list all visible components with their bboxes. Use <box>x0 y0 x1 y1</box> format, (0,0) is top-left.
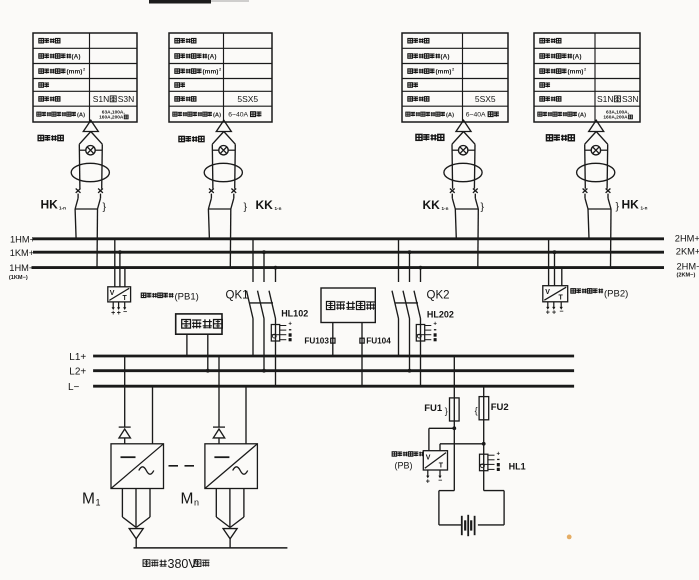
U2-KK knife switch <box>210 194 212 199</box>
bus L1+ <box>93 355 574 358</box>
PB output stubs with polarity <box>427 470 429 477</box>
bus 1KM+/2KM+ <box>33 251 664 254</box>
U4-HK knife switch <box>584 194 586 199</box>
svg-text:+: + <box>426 478 430 485</box>
node: QK2 wire2 on bus2 <box>408 250 412 254</box>
svg-text:L2+: L2+ <box>69 367 86 378</box>
svg-text:1KM+: 1KM+ <box>10 248 35 258</box>
svg-text:(A): (A) <box>208 54 217 61</box>
fuse FU104 <box>360 338 364 343</box>
node: PB1 wire2 on bus 1KM+ <box>118 250 122 254</box>
svg-text:(A): (A) <box>77 113 85 119</box>
U3-KK fuse link X mark <box>450 189 455 193</box>
M1 arrow to AC source <box>129 529 143 539</box>
svg-text:V: V <box>426 455 431 462</box>
bus L2+ <box>93 369 574 372</box>
U1-HK wire right <box>101 144 104 189</box>
svg-text:2KM+: 2KM+ <box>676 246 699 256</box>
U1-HK indicator lamp <box>86 146 95 155</box>
U1-HK fuse link X mark <box>98 189 103 193</box>
U2-KK wire right <box>234 144 237 189</box>
QK2 cross bar <box>396 302 419 304</box>
svg-text:(PB2): (PB2) <box>604 289 628 300</box>
U2-KK wire to bus1 <box>208 209 209 239</box>
svg-text:(2KM−): (2KM−) <box>677 273 696 279</box>
isolator QK2 drop wires <box>398 239 400 282</box>
svg-text:(PB1): (PB1) <box>175 291 199 302</box>
bus 1HM+/2HM+ <box>33 237 664 240</box>
U2-KK current transformer ellipse <box>204 163 242 181</box>
voltmeter PB V/T box <box>423 451 447 470</box>
U2-KK fuse link X mark <box>231 189 236 193</box>
U1-HK wire to bus1 <box>75 209 76 239</box>
QK1 cross bar <box>250 302 273 304</box>
voltmeter PB2 drop wires from buses <box>548 239 550 286</box>
svg-text:1-n: 1-n <box>59 206 66 211</box>
Mn output funnel <box>215 489 217 518</box>
svg-text:FU2: FU2 <box>491 402 509 413</box>
svg-text:}: } <box>481 201 485 213</box>
insulation monitor box <box>321 288 375 323</box>
svg-text:+: + <box>111 310 115 317</box>
fuse FU2 wire from L- <box>483 386 485 490</box>
svg-text:2: 2 <box>219 67 222 72</box>
U3-KK tent wires <box>452 132 464 145</box>
U1-HK wire left <box>78 144 81 189</box>
U1-HK tent wires <box>79 132 91 145</box>
fuse FU104 wire <box>361 323 363 387</box>
M1 output funnel <box>121 489 123 518</box>
svg-text:160A,200A: 160A,200A <box>603 115 628 121</box>
U1-HK fuse link X mark <box>76 189 81 193</box>
svg-text:2HM+: 2HM+ <box>675 233 699 243</box>
decorative: none <box>567 535 572 540</box>
svg-text:+: + <box>433 322 437 328</box>
svg-text:HK: HK <box>41 198 59 212</box>
svg-text:1-n: 1-n <box>641 206 648 211</box>
QK2 wire to L2+ <box>409 319 411 371</box>
diode of Mn <box>213 426 225 428</box>
U3-KK wire right <box>473 144 476 189</box>
U2-KK indicator lamp <box>219 146 228 155</box>
dropper wire to L2+ <box>207 334 209 371</box>
circuit label closing circuit (U4) <box>546 135 552 141</box>
svg-text:FU103: FU103 <box>304 337 329 346</box>
svg-text:T: T <box>559 295 564 302</box>
svg-text:(A): (A) <box>446 113 454 119</box>
svg-text:(A): (A) <box>213 113 221 119</box>
svg-text:2HM−: 2HM− <box>677 262 699 272</box>
rectifier M1 wire from L1+ <box>124 356 126 427</box>
node: PB branch on FU2 wire <box>482 442 486 446</box>
svg-text:160A,200A: 160A,200A <box>99 115 124 121</box>
feeder data table T4 <box>534 33 640 122</box>
label: DC voltage meter (PB1) <box>141 293 146 297</box>
voltmeter PB2 V/T box <box>543 286 568 302</box>
scan artifact bar <box>149 0 211 4</box>
QK1 wire to L2+ <box>263 319 265 371</box>
rectifier M1 converter box <box>111 444 164 489</box>
svg-text:HK: HK <box>622 198 640 212</box>
svg-text:63A,100A,: 63A,100A, <box>102 110 126 116</box>
U4-HK fuse link X mark <box>606 189 611 193</box>
svg-text:}: } <box>244 201 248 213</box>
svg-text:+: + <box>117 310 121 317</box>
U4-HK wire right <box>606 144 609 189</box>
feeder unit U3-KK: plug connector triangle <box>456 120 471 131</box>
svg-text:6~40A: 6~40A <box>466 112 486 119</box>
voltmeter PB1 drop wires from buses <box>114 239 116 287</box>
dashed link between M1 and Mn <box>169 465 201 467</box>
svg-text:QK2: QK2 <box>427 290 450 302</box>
svg-text:QK1: QK1 <box>226 290 249 302</box>
node: QK1 wire2 on bus2 <box>262 250 266 254</box>
svg-text:T: T <box>123 295 128 302</box>
label: to AC 380V supply <box>143 560 150 567</box>
PB1 output stubs with polarity <box>112 302 114 308</box>
U2-KK wire left <box>211 144 214 189</box>
svg-text:(A): (A) <box>72 54 81 61</box>
Mn arrow to AC source <box>223 529 237 539</box>
feeder unit U2-KK: plug connector triangle <box>216 120 231 131</box>
svg-text:−: − <box>559 309 563 316</box>
svg-text:KK: KK <box>256 198 274 212</box>
rectifier M1 wire from L- <box>152 386 154 444</box>
U3-KK wire to bus1 <box>455 209 456 239</box>
dropper wire to L1+ <box>186 334 188 356</box>
fuse FU2 <box>479 397 489 420</box>
svg-text:−: − <box>438 477 442 484</box>
svg-text:S3N: S3N <box>622 94 639 104</box>
svg-text:5SX5: 5SX5 <box>237 94 258 104</box>
U1-HK current transformer ellipse <box>71 163 109 181</box>
svg-text:(PB): (PB) <box>395 461 413 471</box>
fuse FU1 <box>450 398 460 421</box>
voltage dropper device box <box>176 314 222 334</box>
fuse FU103 wire <box>332 323 334 357</box>
battery GB cells <box>461 516 463 535</box>
svg-text:+: + <box>552 310 556 317</box>
node: PB2 wire2 on bus 2KM+ <box>553 250 557 254</box>
svg-text:L1+: L1+ <box>69 352 86 363</box>
svg-text:(A): (A) <box>573 54 582 61</box>
svg-text:6~40A: 6~40A <box>228 112 248 119</box>
U4-HK wire to bus3 <box>610 209 613 268</box>
indicator lamp HL102 <box>271 325 279 342</box>
svg-text:(mm): (mm) <box>568 69 584 76</box>
svg-text:S3N: S3N <box>118 94 135 104</box>
wire battery left leg <box>439 490 454 492</box>
wire PB branch left <box>429 427 454 429</box>
svg-text:FU104: FU104 <box>366 337 391 346</box>
svg-text:2: 2 <box>452 67 455 72</box>
U3-KK current transformer ellipse <box>444 163 482 181</box>
svg-text:1-n: 1-n <box>442 206 449 211</box>
svg-text:S1N: S1N <box>597 94 614 104</box>
feeder data table T3 <box>402 33 508 122</box>
rectifier Mn wire from L1+ <box>218 356 220 427</box>
U1-HK wire to bus3 <box>96 209 99 268</box>
QK2 wire to L1+ <box>398 319 400 357</box>
rectifier Mn wire from L- <box>245 386 247 444</box>
svg-text:(A): (A) <box>578 113 586 119</box>
node: PB branch on FU1 wire <box>452 426 456 430</box>
QK2 wire to L- <box>420 319 422 387</box>
svg-text:5SX5: 5SX5 <box>475 94 496 104</box>
QK2 blades <box>392 291 399 319</box>
svg-text:S1N: S1N <box>93 94 110 104</box>
svg-text:(1KM−): (1KM−) <box>9 275 28 281</box>
svg-text:−: − <box>123 309 127 316</box>
diode of M1 <box>119 426 131 428</box>
U2-KK tent wires <box>212 132 224 145</box>
svg-text:M: M <box>181 491 194 508</box>
voltmeter PB1 V/T box <box>108 287 131 302</box>
U3-KK wire left <box>451 144 454 189</box>
isolator QK1 drop wires <box>252 239 254 282</box>
feeder unit U1-HK: plug connector triangle <box>83 120 98 131</box>
node: QK1 wire3 on bus3 <box>274 266 278 270</box>
U3-KK knife switch <box>451 194 453 199</box>
node: QK2 wire3 on bus3 <box>419 266 423 270</box>
wire PB branch from FU2 <box>440 443 484 445</box>
U1-HK knife switch <box>77 194 79 199</box>
svg-text:HL202: HL202 <box>427 310 454 320</box>
QK1 blades <box>247 291 254 319</box>
indicator lamp HL1 <box>480 454 488 471</box>
svg-text:1: 1 <box>96 498 101 508</box>
svg-text:{: { <box>475 406 478 416</box>
svg-text:1HM−: 1HM− <box>9 263 34 273</box>
svg-text:FU1: FU1 <box>424 403 443 414</box>
QK1 wire to L1+ <box>252 319 254 357</box>
fuse FU1 wire from L1+ <box>453 356 455 491</box>
label: battery voltage meter (PB) <box>392 452 396 456</box>
svg-text:(mm): (mm) <box>203 69 219 76</box>
svg-text:T: T <box>439 463 444 470</box>
PB2 output stubs with polarity <box>547 302 549 308</box>
svg-text:(A): (A) <box>441 54 450 61</box>
U3-KK wire to bus3 <box>477 209 480 268</box>
svg-text:1HM+: 1HM+ <box>10 234 35 244</box>
svg-text:M: M <box>82 491 95 508</box>
svg-text:2: 2 <box>584 67 587 72</box>
svg-text:}: } <box>445 406 448 416</box>
node: QK2 wire2 on L2+ <box>408 369 412 373</box>
svg-text:V: V <box>110 290 115 297</box>
U2-KK wire to bus3 <box>229 209 232 268</box>
svg-text:}: } <box>103 201 107 213</box>
U3-KK fuse link X mark <box>473 189 478 193</box>
feeder data table T2 <box>169 33 272 122</box>
svg-text:(mm): (mm) <box>67 69 83 76</box>
circuit label control circuit (U3) <box>416 134 422 140</box>
feeder unit U4-HK: plug connector triangle <box>589 120 604 131</box>
svg-text:}: } <box>616 201 620 213</box>
svg-text:(mm): (mm) <box>436 69 452 76</box>
svg-text:n: n <box>194 498 199 508</box>
AC source line <box>134 547 288 549</box>
U4-HK wire to bus1 <box>588 209 589 239</box>
svg-text:+: + <box>546 310 550 317</box>
svg-text:L−: L− <box>68 382 80 393</box>
label: DC voltage meter (PB2) <box>571 289 576 293</box>
svg-text:HL1: HL1 <box>509 461 526 471</box>
svg-text:+: + <box>288 322 292 328</box>
svg-text:63A,100A,: 63A,100A, <box>606 110 630 116</box>
U4-HK fuse link X mark <box>583 189 588 193</box>
U4-HK wire left <box>584 144 587 189</box>
bus 1HM-/2HM- <box>32 266 665 269</box>
fuse FU103 <box>331 338 335 343</box>
wire battery right leg <box>484 490 504 492</box>
rectifier Mn converter box <box>205 444 258 489</box>
indicator lamp HL202 <box>416 325 424 342</box>
feeder data table T1 <box>33 33 137 122</box>
U4-HK current transformer ellipse <box>577 163 615 181</box>
svg-text:V: V <box>545 289 550 296</box>
svg-text:380V: 380V <box>168 557 198 571</box>
U2-KK fuse link X mark <box>209 189 214 193</box>
svg-text:HL102: HL102 <box>281 308 308 318</box>
bus L- <box>93 385 574 388</box>
node: dropper wire on L2+ <box>206 369 210 373</box>
node: QK1 wire2 on L2+ <box>262 369 266 373</box>
svg-text:KK: KK <box>423 198 441 212</box>
svg-text:1-n: 1-n <box>275 206 282 211</box>
U4-HK indicator lamp <box>591 146 600 155</box>
svg-text:2: 2 <box>83 67 86 72</box>
U3-KK indicator lamp <box>459 146 468 155</box>
QK1 wire to L- <box>275 319 277 387</box>
svg-text:+: + <box>497 451 501 457</box>
circuit label control circuit (U2) <box>179 136 184 141</box>
U4-HK tent wires <box>585 132 597 145</box>
circuit label closing circuit (U1) <box>38 135 43 140</box>
